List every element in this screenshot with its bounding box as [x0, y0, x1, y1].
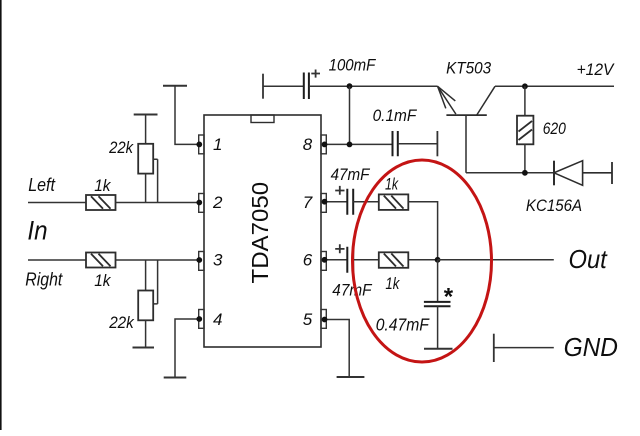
junction dot pin 2	[196, 200, 202, 206]
wire Left input to R1	[28, 202, 86, 204]
ground (pin 4)	[164, 377, 187, 379]
page left border	[0, 0, 2, 430]
junction dot pin 7	[322, 199, 328, 205]
svg-text:47mF: 47mF	[331, 166, 371, 184]
transistor Q1 KT503	[438, 86, 495, 173]
wire P2 top to Right signal	[145, 260, 147, 291]
pin 7 box	[321, 194, 326, 213]
wire C3 to R3	[353, 201, 379, 203]
wire C2 to terminal	[398, 143, 438, 145]
junction dot output node	[435, 257, 441, 263]
polarity + of C1	[311, 70, 320, 78]
polarity + of C3	[335, 186, 344, 195]
wire pin 5 to ground	[326, 320, 349, 378]
wire collector to +12V rail	[495, 85, 614, 87]
wire R3 to output node	[408, 202, 437, 260]
wire P1 bottom to Left signal	[145, 174, 147, 203]
wire GND terminal	[494, 347, 554, 349]
ground (below 22k P2)	[133, 347, 155, 349]
junction dot pin 6	[322, 257, 328, 263]
potentiometer P2 22k body	[138, 291, 153, 321]
svg-text:1k: 1k	[94, 271, 112, 290]
svg-text:1k: 1k	[385, 275, 400, 293]
svg-text:+12V: +12V	[577, 60, 615, 79]
wire pin 8 to node	[326, 143, 392, 145]
input terminal of C1	[262, 74, 264, 99]
pin 2 box	[199, 194, 204, 213]
svg-text:22k: 22k	[108, 313, 135, 332]
svg-text:KT503: KT503	[446, 58, 491, 77]
svg-text:KC156A: KC156A	[526, 196, 582, 215]
wire R2 to pin 3	[116, 259, 199, 261]
wire pin 7 to C3	[326, 201, 347, 203]
svg-text:In: In	[27, 215, 47, 245]
polarity + of C4	[335, 244, 344, 253]
wire node to C5	[437, 260, 439, 302]
GND terminal	[493, 334, 495, 362]
svg-text:GND: GND	[564, 332, 618, 362]
wire ground to P1 top	[145, 115, 147, 144]
svg-text:Left: Left	[28, 174, 55, 195]
resistor R3 1k	[379, 194, 409, 210]
svg-text:4: 4	[213, 310, 222, 329]
resistor R4 1k	[379, 252, 409, 267]
wire Right input to R2	[28, 259, 86, 261]
terminal of C2	[436, 131, 438, 156]
wire P2 bottom to ground	[145, 320, 147, 347]
wire R1 to pin 2	[116, 202, 199, 204]
svg-text:Right: Right	[25, 268, 63, 289]
IC notch	[251, 115, 274, 123]
svg-text:0.1mF: 0.1mF	[373, 106, 418, 125]
svg-text:3: 3	[213, 251, 223, 270]
junction dot pin 8	[322, 142, 328, 148]
IC U1 TDA7050 body	[204, 115, 321, 347]
potentiometer P1 22k body	[138, 144, 153, 174]
svg-text:22k: 22k	[108, 138, 134, 157]
wire C1 to emitter of Q1	[309, 85, 438, 87]
capacitor C1 100mF	[304, 73, 309, 100]
resistor R5 620	[517, 116, 533, 145]
svg-text:5: 5	[303, 310, 313, 329]
junction dot pin 5	[322, 317, 328, 323]
pin 6 box	[321, 252, 326, 271]
wire junction down to pin 8 node	[349, 86, 351, 144]
svg-text:100mF: 100mF	[329, 56, 377, 75]
ground (C5)	[424, 348, 453, 350]
svg-text:TDA7050: TDA7050	[247, 182, 273, 284]
svg-text:1k: 1k	[385, 175, 399, 193]
capacitor C3 47mF	[347, 189, 353, 215]
capacitor C5 0.47mF	[424, 302, 451, 306]
wire output node to Out	[438, 259, 554, 261]
pin 8 box	[321, 135, 326, 154]
ground (pin 5)	[337, 376, 365, 378]
wire terminal to C1	[263, 85, 304, 87]
svg-text:8: 8	[303, 135, 313, 154]
pin 1 box	[199, 135, 204, 154]
wiper tap P1	[153, 159, 157, 202]
resistor R2 1k (right input)	[86, 253, 116, 268]
wire base of Q1 to zener node	[466, 172, 554, 174]
wire rail to R5	[524, 86, 526, 115]
svg-text:1k: 1k	[94, 176, 112, 195]
capacitor C4 47mF	[347, 247, 353, 273]
junction dot pin 3	[196, 257, 202, 263]
svg-text:0.47mF: 0.47mF	[376, 314, 430, 334]
wiper tap P2	[153, 260, 157, 304]
junction node above pin 8	[347, 83, 353, 89]
ground (above 22k P1)	[134, 114, 158, 116]
svg-text:*: *	[444, 284, 454, 311]
wire C5 to ground	[437, 306, 439, 349]
svg-text:7: 7	[303, 193, 313, 212]
wire C4 to R4	[353, 259, 379, 261]
svg-text:620: 620	[543, 119, 567, 138]
pin 5 box	[321, 310, 326, 329]
wire R5 to zener node	[524, 144, 526, 173]
junction dot rail/R5	[522, 83, 528, 89]
svg-text:2: 2	[212, 193, 223, 212]
ground (pin 1)	[163, 85, 187, 87]
resistor R1 1k (left input)	[86, 195, 116, 210]
capacitor C2 0.1mF	[393, 131, 398, 156]
svg-text:6: 6	[303, 251, 313, 270]
junction dot zener node	[522, 170, 528, 176]
wire ground to pin 1	[175, 86, 199, 145]
svg-text:Out: Out	[569, 244, 609, 274]
wire pin 6 to C4	[326, 259, 347, 261]
wire pin 4 to ground	[175, 319, 199, 378]
junction dot 0.1mF node	[347, 142, 353, 148]
highlight ellipse (red)	[353, 160, 492, 362]
zener diode VD1 KC156A	[554, 161, 612, 186]
wire R4 to output node	[408, 259, 437, 261]
svg-text:1: 1	[213, 135, 222, 154]
junction dot pin 4	[196, 316, 202, 322]
pin 3 box	[199, 252, 204, 271]
pin 4 box	[199, 310, 204, 329]
junction dot pin 1	[196, 142, 202, 148]
